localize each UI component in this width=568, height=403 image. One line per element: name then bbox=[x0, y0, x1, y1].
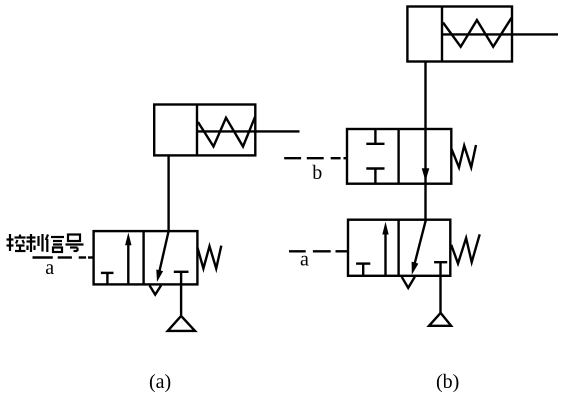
valve B2 spring W bbox=[451, 234, 480, 263]
svg-text:a: a bbox=[300, 249, 309, 271]
valve A up arrow bbox=[125, 233, 131, 285]
wire cylinder B to valves B bbox=[424, 62, 426, 220]
valve A spring W bbox=[197, 246, 221, 269]
valve A diagonal arrow bbox=[156, 231, 168, 282]
cylinder B spring bbox=[443, 18, 512, 47]
svg-text:a: a bbox=[45, 257, 54, 279]
valve A blocked port T right bbox=[174, 272, 189, 315]
cylinder B rod bbox=[442, 33, 558, 35]
char 信 bbox=[46, 235, 64, 253]
char 号 bbox=[66, 235, 84, 252]
wire cylinder A to valve A bbox=[167, 155, 169, 231]
valve B1 blocked port T top bbox=[366, 129, 384, 144]
char 控 bbox=[7, 234, 26, 251]
valve A exhaust V bbox=[150, 285, 162, 294]
valve B1 body (upper) bbox=[347, 129, 451, 184]
svg-text:b: b bbox=[312, 162, 322, 184]
valve A body bbox=[94, 231, 198, 284]
valve B1 down arrowhead bbox=[422, 168, 430, 181]
valve B1 blocked port T bottom bbox=[366, 169, 384, 184]
cylinder A piston bbox=[196, 105, 198, 156]
valve B2 up arrow bbox=[382, 222, 388, 276]
label 控制信号 (control signal), drawn strokes bbox=[7, 234, 84, 252]
exhaust triangle B bbox=[429, 313, 451, 326]
svg-text:(a): (a) bbox=[149, 371, 171, 393]
valve B2 divider bbox=[397, 220, 399, 276]
cylinder B body bbox=[407, 7, 512, 62]
dashed control line b bbox=[284, 157, 347, 159]
dashed control line a bbox=[33, 256, 94, 258]
valve A divider bbox=[142, 231, 144, 284]
cylinder B piston bbox=[441, 7, 443, 62]
valve B2 exhaust V bbox=[402, 277, 415, 288]
valve B1 spring W bbox=[452, 145, 477, 167]
valve A blocked port T left bbox=[101, 273, 114, 285]
dashed control line a (figure b) bbox=[289, 250, 348, 252]
svg-text:(b): (b) bbox=[436, 371, 459, 393]
cylinder A rod bbox=[197, 130, 300, 132]
valve B2 body (lower) bbox=[348, 220, 450, 276]
valve B2 blocked port T left bbox=[356, 264, 370, 276]
valve B2 blocked port T right bbox=[434, 262, 447, 313]
char 制 bbox=[27, 234, 43, 252]
cylinder A spring bbox=[198, 117, 255, 147]
cylinder A body bbox=[154, 105, 255, 156]
valve B1 divider bbox=[397, 129, 399, 184]
valve B2 diagonal arrow bbox=[412, 220, 426, 275]
exhaust triangle A bbox=[168, 316, 195, 331]
